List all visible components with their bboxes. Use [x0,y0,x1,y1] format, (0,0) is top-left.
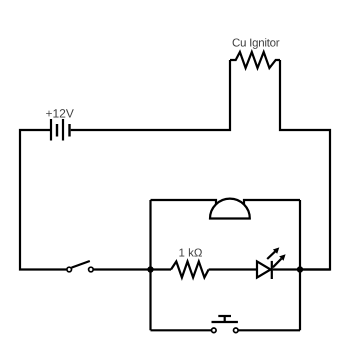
pushbutton SW2 stem [224,316,226,322]
bottom wire right of button [238,329,300,331]
pushbutton SW2 left contact [212,328,217,333]
inner loop top wire right [244,200,300,205]
switch S1 left contact [67,267,72,272]
inner loop right edge [299,200,301,330]
LED D1 triangle anode [257,261,271,277]
wire LED to right edge through node B [273,268,330,270]
wire ignitor right lead to right edge down [280,60,330,270]
pushbutton SW2 bridge [212,321,238,323]
label 1 kOhm [179,248,202,256]
resistor R ignitor zigzag [230,52,280,68]
wire resistor R1 to LED D1 [209,268,256,270]
wire battery-right to ignitor left lead [71,60,230,130]
node A junction dot [147,266,153,272]
label +12V [46,109,74,117]
wire node A to resistor R1 [151,268,172,270]
switch S1 right contact [89,267,94,272]
resistor R1 1k zigzag [171,262,209,278]
LED D1 cathode bar [271,261,273,279]
battery BT1 long plate 1 [50,119,52,141]
wire battery-left to left edge down to switch [20,130,66,270]
LED arrow 2 head [279,254,285,260]
bottom wire left of button [151,329,212,331]
battery BT1 short plate 2 [68,124,70,137]
node B junction dot [297,266,303,272]
buzzer LS1 dome [210,199,250,219]
inner loop left edge [149,200,151,330]
switch S1 lever [72,261,90,268]
battery BT1 long plate 2 [62,119,64,141]
LED D1 light arrow 1 shaft [267,251,275,259]
LED D1 light arrow 2 shaft [273,259,282,268]
wire switch to node A [94,268,151,270]
LED arrow 1 head [273,247,279,253]
pushbutton SW2 right contact [234,328,239,333]
battery BT1 short plate 1 [56,124,58,137]
inner loop top wire left [151,200,217,205]
label Cu Ignitor [233,38,280,49]
pushbutton SW2 cap [218,315,231,317]
